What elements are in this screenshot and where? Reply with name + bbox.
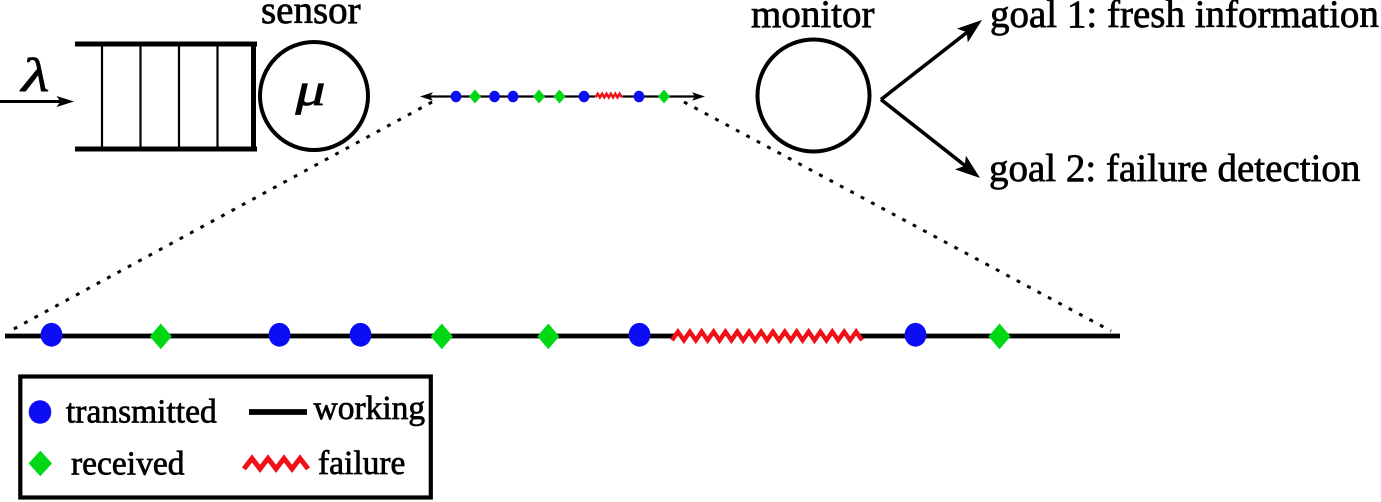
- svg-text:goal 1: fresh information: goal 1: fresh information: [990, 0, 1379, 36]
- goal 2 arrow: [881, 100, 980, 179]
- right zoom dotted line: [684, 102, 1111, 331]
- big failure zigzag: [672, 332, 862, 341]
- mini timeline double arrow: [420, 92, 705, 101]
- left zoom dotted line: [10, 102, 432, 331]
- svg-text:working: working: [314, 390, 426, 427]
- legend working line: [249, 409, 307, 415]
- legend failure zigzag: [244, 458, 308, 469]
- queue slot divider 3: [178, 46, 180, 147]
- queue top bar: [75, 42, 257, 47]
- big timeline working segment left: [5, 334, 674, 339]
- mini failure zigzag: [596, 94, 622, 98]
- queue slot divider 1: [101, 46, 103, 147]
- big transmitted dots: [41, 323, 927, 347]
- legend box: [20, 377, 431, 498]
- monitor circle: [758, 40, 870, 152]
- svg-text:monitor: monitor: [751, 0, 875, 36]
- legend transmitted dot: [29, 400, 52, 424]
- queue right wall: [251, 42, 256, 152]
- svg-text:μ: μ: [294, 64, 325, 115]
- svg-text:goal 2: failure detection: goal 2: failure detection: [989, 147, 1360, 190]
- big received diamonds: [150, 324, 1011, 350]
- legend received diamond: [29, 451, 52, 477]
- arrival arrow: [0, 96, 74, 107]
- mini received diamonds: [469, 90, 670, 104]
- svg-text:transmitted: transmitted: [66, 394, 217, 431]
- sensor server circle: [260, 42, 368, 150]
- svg-text:λ: λ: [19, 49, 50, 102]
- queue slot divider 2: [139, 46, 141, 147]
- queue slot divider 4: [216, 46, 218, 147]
- big timeline working segment right: [860, 334, 1120, 339]
- svg-text:received: received: [71, 446, 185, 483]
- svg-text:sensor: sensor: [261, 0, 361, 32]
- queue bottom bar: [75, 147, 257, 152]
- mini transmitted dots: [451, 91, 645, 103]
- svg-text:failure: failure: [318, 445, 405, 482]
- goal 1 arrow: [881, 20, 982, 100]
